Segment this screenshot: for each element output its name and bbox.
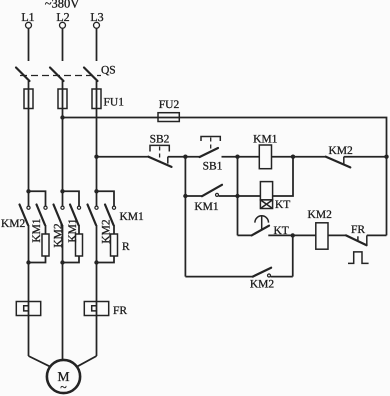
svg-text:KM2: KM2 [100, 219, 112, 244]
svg-text:KM2: KM2 [308, 209, 333, 221]
svg-text:KM1: KM1 [31, 218, 43, 243]
svg-text:R: R [122, 241, 130, 253]
svg-text:SB2: SB2 [150, 134, 170, 146]
svg-text:KM1: KM1 [67, 218, 79, 243]
svg-text:FR: FR [351, 224, 365, 236]
svg-text:SB1: SB1 [203, 160, 223, 172]
svg-text:KT: KT [274, 225, 289, 237]
svg-text:~: ~ [60, 380, 67, 394]
svg-text:QS: QS [101, 65, 116, 77]
svg-text:L2: L2 [56, 10, 69, 24]
svg-text:KM1: KM1 [120, 211, 145, 223]
svg-text:KM2: KM2 [250, 279, 275, 291]
svg-text:FR: FR [113, 305, 127, 317]
svg-text:L1: L1 [21, 10, 34, 24]
svg-text:KM2: KM2 [328, 145, 353, 157]
svg-text:FU1: FU1 [104, 97, 125, 109]
svg-text:KM1: KM1 [253, 134, 278, 146]
svg-text:KT: KT [275, 199, 290, 211]
svg-text:~380V: ~380V [45, 0, 80, 11]
svg-text:KM2: KM2 [1, 218, 26, 230]
svg-text:FU2: FU2 [159, 99, 180, 111]
svg-text:L3: L3 [90, 10, 103, 24]
svg-text:KM2: KM2 [52, 223, 64, 248]
svg-text:KM1: KM1 [194, 201, 219, 213]
